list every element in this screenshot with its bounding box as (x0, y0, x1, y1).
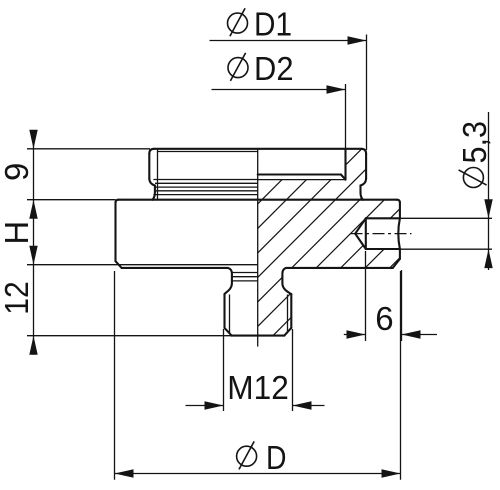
dimension D2 extension line (345, 84, 347, 149)
svg-text:D: D (266, 439, 287, 476)
flange right edge upper (399, 203, 401, 219)
left dimension chain line (33, 130, 35, 354)
left chain arrow at stud bottom (29, 336, 37, 355)
cross hole centerline (351, 233, 412, 235)
boss thread runout lines (153, 180, 257, 195)
boss right edge (365, 154, 367, 179)
svg-text:12: 12 (0, 281, 35, 315)
stud right chamfer (284, 328, 291, 336)
flange right edge hole mouth arc (398, 218, 400, 249)
flange top-left corner (116, 200, 119, 203)
svg-text:6: 6 (375, 300, 393, 337)
flange bottom-right chamfer (393, 259, 400, 268)
svg-text:D1: D1 (254, 6, 292, 43)
dimension 5,3 label (456, 121, 493, 188)
stud right neck (282, 268, 291, 294)
dimension M12 line right (293, 405, 325, 407)
dimension M12 arrow left (205, 401, 224, 409)
counterbore wall (right) (344, 149, 346, 180)
dimension 6 extension left (365, 251, 367, 341)
left chain arrow at flange top (29, 200, 37, 219)
dimension D1 label (228, 6, 293, 43)
dimension 6 arrow right (402, 330, 421, 338)
dimension 5,3 arrow top (484, 199, 492, 218)
counterbore floor corner chamfer (341, 175, 346, 180)
dimension 5,3 extension top (401, 217, 493, 219)
extension line boss top (27, 148, 150, 150)
flange bottom left (122, 267, 228, 269)
left chain arrow at boss top (29, 130, 37, 149)
stud thread minor line right (287, 295, 289, 333)
dimension D label (237, 439, 287, 476)
boss thread minor diameter line (left) (157, 149, 159, 199)
cross hole top edge (366, 217, 400, 219)
flange bottom right (286, 267, 393, 269)
dimension D line (115, 473, 401, 475)
counterbore floor thin line (258, 179, 346, 181)
stud left neck (225, 268, 232, 294)
dimension M12 line left (186, 405, 224, 407)
dimension 5,3 arrow bottom (484, 249, 492, 268)
dimension D arrow left (115, 469, 134, 477)
svg-text:H: H (0, 221, 35, 245)
boss top-left corner (149, 149, 154, 154)
extension line flange top (27, 199, 116, 201)
dimension 6 line right (402, 334, 438, 336)
flange left edge (114, 203, 116, 262)
stud left edge (223, 294, 225, 328)
extension line stud bottom (27, 335, 232, 337)
stud left chamfer (225, 328, 232, 336)
dimension D extension right (400, 271, 402, 480)
stud bottom face (232, 335, 285, 337)
cross hole cone base (365, 218, 367, 249)
stud right edge (290, 294, 292, 328)
boss left undercut neck (149, 179, 155, 200)
boss top face (154, 148, 361, 150)
dimension M12 extension right (292, 329, 294, 411)
dimension D2 line (212, 89, 346, 91)
flange right edge lower (399, 249, 401, 259)
stud thread runout lines (232, 273, 258, 281)
svg-text:D2: D2 (254, 50, 294, 87)
cross hole drill cone (355, 218, 366, 249)
dimension D2 arrow (327, 85, 346, 93)
cross hole bottom edge (366, 248, 400, 250)
svg-text:9: 9 (0, 163, 35, 181)
dimension D1 extension line (366, 35, 368, 151)
dimension 5,3 extension bottom (401, 248, 493, 250)
boss left edge (148, 154, 150, 179)
boss chamfer ring line (left half) (158, 151, 258, 153)
dimension D1 arrow (348, 36, 367, 44)
dimension 6 arrow left (347, 330, 366, 338)
dimension 6 extension right (401, 270, 403, 341)
flange bottom-left chamfer (116, 261, 122, 268)
dimension 6 line left (344, 334, 366, 336)
boss top-right corner (361, 149, 366, 154)
svg-text:M12: M12 (227, 369, 288, 406)
flange top face (119, 199, 397, 201)
dimension D2 label (228, 50, 294, 87)
boss right undercut neck (361, 179, 367, 200)
dimension M12 extension left (223, 329, 225, 411)
svg-text:5,3: 5,3 (456, 121, 493, 164)
dimension M12 arrow right (293, 401, 312, 409)
dimension D extension left (114, 271, 116, 480)
dimension 5,3 line (488, 112, 490, 270)
section centerline (257, 149, 259, 347)
counterbore floor (258, 173, 341, 175)
flange chamfer ring line (left half) (27, 264, 258, 266)
dimension D1 line (210, 40, 367, 42)
left chain arrow at flange bottom (29, 246, 37, 265)
dimension D arrow right (382, 469, 401, 477)
stud thread minor line left (229, 295, 231, 334)
flange top-right corner (397, 200, 400, 203)
